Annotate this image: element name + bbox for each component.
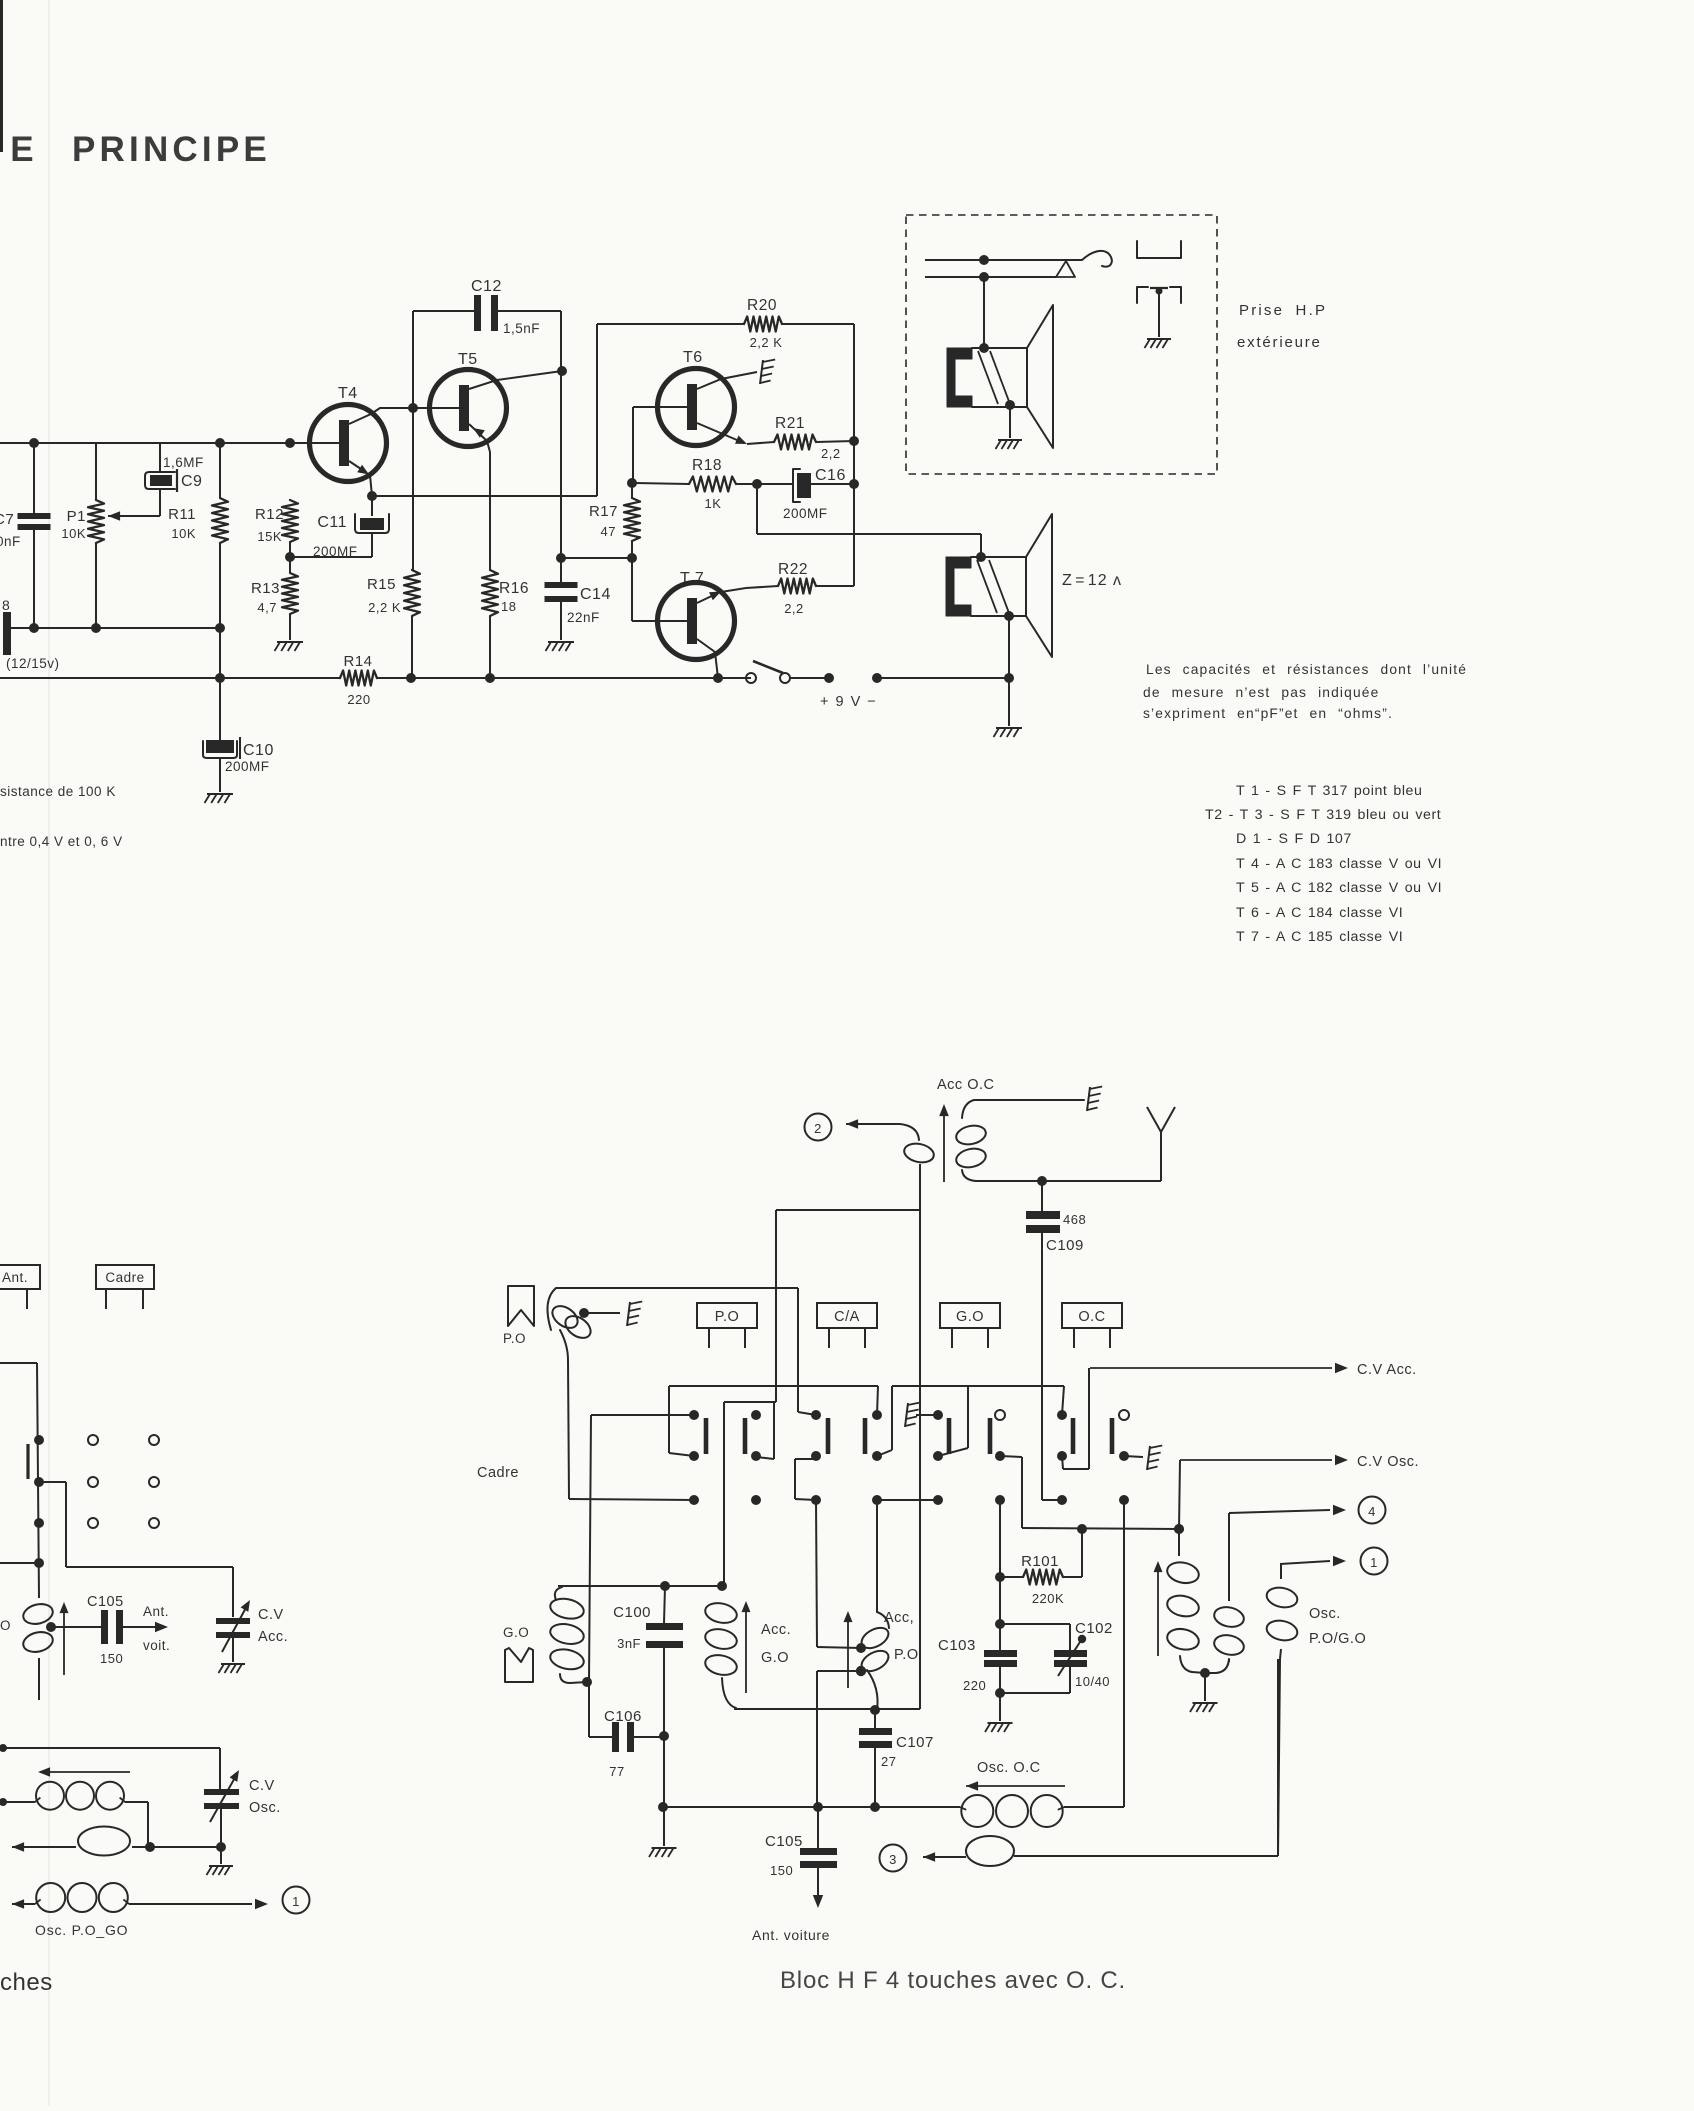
svg-text:Cadre: Cadre [477, 1465, 519, 1481]
svg-text:C.V: C.V [258, 1607, 284, 1623]
svg-text:Osc.: Osc. [1309, 1606, 1341, 1622]
svg-text:1,5nF: 1,5nF [503, 321, 540, 336]
svg-text:4: 4 [1368, 1504, 1376, 1519]
svg-text:2,2 K: 2,2 K [368, 600, 401, 615]
svg-text:C7: C7 [0, 511, 14, 528]
svg-text:s’expriment en“pF”et en “oh: s’expriment en“pF”et en “ohms”. [1143, 706, 1393, 721]
svg-text:Ant. voiture: Ant. voiture [752, 1927, 830, 1943]
svg-text:C14: C14 [580, 586, 611, 603]
svg-text:C107: C107 [896, 1734, 934, 1751]
svg-text:10K: 10K [61, 526, 86, 541]
svg-text:R22: R22 [778, 561, 808, 578]
svg-text:Bloc H F 4 touches avec O: Bloc H F 4 touches avec O. C. [780, 1967, 1126, 1994]
svg-text:T 1 - S F T 317 point bleu: T 1 - S F T 317 point bleu [1236, 783, 1422, 799]
svg-text:2,2: 2,2 [784, 601, 804, 616]
svg-text:R11: R11 [168, 506, 196, 523]
svg-text:R16: R16 [499, 580, 529, 597]
svg-text:R14: R14 [343, 653, 372, 670]
svg-text:C103: C103 [938, 1637, 976, 1654]
svg-text:T 4 - A C 183 classe V o: T 4 - A C 183 classe V ou VI [1236, 856, 1442, 872]
svg-text:R21: R21 [775, 415, 805, 432]
svg-text:P1: P1 [67, 508, 86, 525]
svg-text:C/A: C/A [834, 1309, 860, 1325]
svg-text:Osc. P.O_GO: Osc. P.O_GO [35, 1922, 128, 1938]
svg-text:220K: 220K [1032, 1591, 1064, 1606]
svg-text:Z = 12 ʌ: Z = 12 ʌ [1062, 572, 1122, 589]
svg-text:G.O: G.O [761, 1650, 789, 1666]
svg-text:P.O: P.O [715, 1309, 740, 1325]
svg-text:P.O/G.O: P.O/G.O [1309, 1631, 1366, 1647]
svg-text:18: 18 [501, 599, 516, 614]
svg-text:77: 77 [609, 1764, 624, 1779]
svg-text:C.V Osc.: C.V Osc. [1357, 1454, 1419, 1470]
svg-text:C105: C105 [765, 1833, 803, 1850]
svg-text:3nF: 3nF [617, 1636, 641, 1651]
svg-text:R20: R20 [747, 297, 777, 314]
svg-text:220: 220 [347, 692, 370, 707]
svg-text:10/40: 10/40 [1075, 1674, 1110, 1689]
svg-text:15K: 15K [257, 529, 282, 544]
svg-text:C.V Acc.: C.V Acc. [1357, 1362, 1417, 1378]
svg-text:22nF: 22nF [567, 610, 600, 625]
svg-text:C10: C10 [243, 742, 274, 759]
svg-text:R12: R12 [255, 506, 284, 523]
svg-text:O: O [0, 1618, 11, 1633]
svg-text:Acc.: Acc. [761, 1622, 791, 1638]
svg-text:T 7 - A C 185 classe VI: T 7 - A C 185 classe VI [1236, 929, 1403, 945]
svg-text:1: 1 [292, 1894, 300, 1909]
svg-text:T5: T5 [458, 351, 478, 368]
svg-text:C16: C16 [815, 467, 846, 484]
svg-text:+ 9 V −: + 9 V − [820, 694, 877, 710]
svg-text:3: 3 [889, 1852, 897, 1867]
svg-text:Acc O.C: Acc O.C [937, 1077, 994, 1093]
svg-text:Les capacités et résistance: Les capacités et résistances dont l’unit… [1146, 662, 1467, 677]
svg-text:Acc.: Acc. [258, 1629, 288, 1645]
svg-text:DE: DE [0, 130, 43, 169]
svg-text:C102: C102 [1075, 1620, 1113, 1637]
svg-text:R15: R15 [367, 576, 396, 593]
svg-text:extérieure: extérieure [1237, 334, 1322, 351]
svg-text:D 1 - S F D 107: D 1 - S F D 107 [1236, 831, 1352, 847]
svg-text:(12/15v): (12/15v) [6, 656, 60, 671]
svg-text:T4: T4 [338, 385, 358, 402]
svg-text:220: 220 [963, 1678, 986, 1693]
svg-text:47: 47 [601, 524, 616, 539]
svg-text:sistance de 100 K: sistance de 100 K [0, 784, 116, 799]
svg-text:G.O: G.O [956, 1309, 984, 1325]
svg-text:Osc. O.C: Osc. O.C [977, 1760, 1041, 1776]
svg-text:4,7: 4,7 [257, 600, 277, 615]
svg-text:Acc,: Acc, [884, 1610, 914, 1626]
svg-text:1: 1 [1370, 1555, 1378, 1570]
svg-text:R13: R13 [251, 580, 280, 597]
svg-text:0nF: 0nF [0, 534, 21, 549]
svg-text:PRINCIPE: PRINCIPE [72, 130, 271, 169]
svg-text:T2 - T 3 - S F T 319 bleu: T2 - T 3 - S F T 319 bleu ou vert [1205, 807, 1441, 823]
svg-text:8: 8 [2, 597, 10, 613]
svg-text:1,6MF: 1,6MF [163, 455, 204, 470]
svg-text:T6: T6 [683, 349, 703, 366]
svg-text:P.O: P.O [503, 1331, 526, 1346]
svg-text:C9: C9 [181, 473, 202, 490]
svg-text:T 6 - A C 184 classe VI: T 6 - A C 184 classe VI [1236, 905, 1403, 921]
svg-text:2: 2 [814, 1121, 822, 1136]
svg-text:Osc.: Osc. [249, 1800, 281, 1816]
svg-text:150: 150 [770, 1863, 793, 1878]
svg-text:200MF: 200MF [783, 506, 828, 521]
svg-text:Cadre: Cadre [105, 1270, 144, 1285]
svg-text:R17: R17 [589, 503, 618, 520]
svg-text:P.O: P.O [894, 1647, 919, 1663]
svg-text:ches: ches [0, 1969, 53, 1996]
svg-text:O.C: O.C [1078, 1309, 1105, 1325]
svg-text:C11: C11 [317, 514, 347, 531]
svg-text:Prise H.P: Prise H.P [1239, 302, 1327, 319]
svg-text:2,2 K: 2,2 K [750, 335, 783, 350]
svg-text:C106: C106 [604, 1708, 642, 1725]
svg-text:200MF: 200MF [225, 759, 270, 774]
svg-text:T 5 - A C 182 classe V o: T 5 - A C 182 classe V ou VI [1236, 880, 1442, 896]
svg-text:G.O: G.O [503, 1625, 529, 1640]
svg-text:C105: C105 [87, 1594, 124, 1610]
svg-text:2,2: 2,2 [821, 446, 841, 461]
svg-text:C12: C12 [471, 278, 502, 295]
svg-text:de mesure n’est pas indiq: de mesure n’est pas indiquée [1143, 685, 1379, 700]
svg-text:ntre 0,4 V et 0, 6 V: ntre 0,4 V et 0, 6 V [0, 834, 123, 849]
svg-text:C100: C100 [613, 1604, 651, 1621]
svg-text:10K: 10K [171, 526, 196, 541]
svg-text:R101: R101 [1021, 1553, 1059, 1570]
svg-text:Ant.: Ant. [143, 1604, 169, 1619]
svg-text:27: 27 [881, 1754, 896, 1769]
svg-text:voit.: voit. [143, 1638, 170, 1653]
svg-text:R18: R18 [692, 457, 722, 474]
svg-text:150: 150 [100, 1651, 123, 1666]
svg-text:C109: C109 [1046, 1237, 1084, 1254]
svg-text:1K: 1K [705, 496, 722, 511]
svg-text:Ant.: Ant. [2, 1270, 28, 1285]
svg-text:C.V: C.V [249, 1778, 275, 1794]
svg-text:468: 468 [1063, 1212, 1086, 1227]
